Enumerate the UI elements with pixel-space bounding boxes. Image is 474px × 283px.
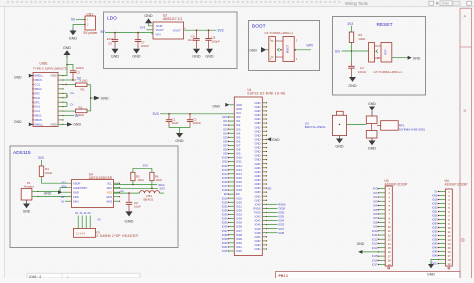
svg-text:SIYEMA-KXB-Z001: SIYEMA-KXB-Z001 xyxy=(399,127,426,131)
svg-text:IO12: IO12 xyxy=(222,164,228,168)
resistor R4 10k xyxy=(41,160,43,166)
svg-text:IO4: IO4 xyxy=(373,204,378,208)
top toolbar xyxy=(0,0,474,7)
ground (C8) xyxy=(206,49,213,54)
svg-text:VDD: VDD xyxy=(107,190,113,194)
svg-text:ALERT/RDY: ALERT/RDY xyxy=(73,186,88,190)
svg-text:IO38: IO38 xyxy=(255,231,261,235)
svg-text:IO34: IO34 xyxy=(236,217,242,221)
svg-text:10kΩ: 10kΩ xyxy=(155,178,161,182)
svg-text:DP2: DP2 xyxy=(34,91,40,95)
svg-text:IO5: IO5 xyxy=(373,208,378,212)
ground (U2 GND pin) xyxy=(145,18,152,23)
svg-text:ESP32-S2-MINI-1U-N8: ESP32-S2-MINI-1U-N8 xyxy=(248,92,286,96)
ground (H4) xyxy=(431,260,439,265)
svg-text:IO13: IO13 xyxy=(372,242,378,246)
svg-text:11: 11 xyxy=(388,229,391,233)
svg-text:IO26: IO26 xyxy=(432,214,438,218)
svg-text:3V3: 3V3 xyxy=(140,26,146,30)
svg-text:IO18: IO18 xyxy=(432,198,438,202)
ground (C6) xyxy=(193,49,200,54)
svg-text:3V3: 3V3 xyxy=(236,111,241,115)
svg-text:IO35: IO35 xyxy=(222,221,228,225)
ground (ESP32 right GND) xyxy=(267,137,271,141)
connector CN1 5V power xyxy=(85,16,96,30)
ground (above USB) xyxy=(66,55,68,58)
filter RF1 SIYEMA-KXB-Z001 xyxy=(366,116,377,124)
svg-text:ADS1115IDGSR: ADS1115IDGSR xyxy=(89,176,113,180)
svg-text:CC1: CC1 xyxy=(34,109,40,113)
wire (antenna feed) xyxy=(347,124,364,126)
svg-text:A3: A3 xyxy=(97,217,101,221)
svg-text:IO36: IO36 xyxy=(222,225,228,229)
svg-text:10uF: 10uF xyxy=(172,121,179,125)
connector P2 header xyxy=(74,228,96,237)
svg-text:IO40: IO40 xyxy=(255,223,261,227)
svg-text:IO1: IO1 xyxy=(373,191,378,195)
svg-text:IO11: IO11 xyxy=(222,160,228,164)
wire (AIN to P2) xyxy=(77,216,79,229)
svg-text:GND: GND xyxy=(255,121,261,125)
svg-text:GND: GND xyxy=(50,122,56,126)
svg-text:GND: GND xyxy=(272,138,280,142)
svg-text:IO16: IO16 xyxy=(236,180,242,184)
svg-text:2.54MM 1*5P HEADER: 2.54MM 1*5P HEADER xyxy=(96,234,138,238)
svg-text:IO8: IO8 xyxy=(223,148,228,152)
svg-text:GND: GND xyxy=(212,104,220,108)
svg-text:GND: GND xyxy=(432,194,438,198)
svg-text:SBU2: SBU2 xyxy=(34,87,42,91)
svg-text:100nF: 100nF xyxy=(358,70,367,74)
svg-text:Wiring Tools: Wiring Tools xyxy=(345,1,368,6)
svg-text:100nF: 100nF xyxy=(193,121,202,125)
svg-text:SDA: SDA xyxy=(107,186,113,190)
ground (CC resistors) xyxy=(94,96,100,100)
svg-text:SDA: SDA xyxy=(61,185,66,188)
svg-text:RESET: RESET xyxy=(377,22,393,28)
svg-text:IO39: IO39 xyxy=(432,242,438,246)
svg-text:IO38: IO38 xyxy=(432,238,438,242)
svg-text:IO10: IO10 xyxy=(372,229,378,233)
svg-text:GND: GND xyxy=(205,55,214,59)
capacitor C8 100nF xyxy=(208,30,210,38)
capacitor C3 100nF xyxy=(67,65,73,71)
svg-text:IO0: IO0 xyxy=(236,115,241,119)
svg-text:IO38: IO38 xyxy=(236,233,242,237)
svg-text:IO45: IO45 xyxy=(255,202,261,206)
svg-text:VOUT: VOUT xyxy=(173,29,182,33)
svg-text:IO12: IO12 xyxy=(372,237,378,241)
svg-text:GND: GND xyxy=(255,150,261,154)
svg-text:IO9: IO9 xyxy=(236,152,241,156)
svg-text:GND: GND xyxy=(255,194,261,198)
svg-text:GND: GND xyxy=(236,103,242,107)
svg-text:IO18: IO18 xyxy=(222,188,228,192)
svg-text:RXD0: RXD0 xyxy=(253,206,261,210)
svg-text:IO6: IO6 xyxy=(223,139,228,143)
ground (C7) xyxy=(133,49,140,54)
svg-text:16: 16 xyxy=(448,250,451,254)
ground (C5) xyxy=(112,49,119,54)
svg-text:IO17: IO17 xyxy=(236,184,242,188)
svg-text:IO13: IO13 xyxy=(236,168,242,172)
svg-text:15: 15 xyxy=(388,246,391,250)
svg-text:GND: GND xyxy=(44,191,52,195)
svg-text:3V3: 3V3 xyxy=(38,156,44,160)
svg-text:3V3: 3V3 xyxy=(153,112,159,116)
svg-text:CC2: CC2 xyxy=(34,83,40,87)
svg-text:10kΩ: 10kΩ xyxy=(137,178,143,182)
svg-text:GND: GND xyxy=(255,158,261,162)
svg-text:GND: GND xyxy=(255,174,261,178)
svg-text:IO8: IO8 xyxy=(236,148,241,152)
wire (ESP32 left pin stubs and net labels) xyxy=(229,116,235,118)
svg-text:IO15: IO15 xyxy=(236,176,242,180)
svg-text:15: 15 xyxy=(448,246,451,250)
svg-text:GND: GND xyxy=(255,162,261,166)
svg-text:IO37: IO37 xyxy=(432,234,438,238)
wire (U4 right stubs) xyxy=(114,182,120,184)
svg-text:IO18: IO18 xyxy=(236,188,242,192)
svg-text:10kΩ: 10kΩ xyxy=(358,37,366,41)
svg-text:IO7: IO7 xyxy=(223,144,228,148)
svg-text:IO37: IO37 xyxy=(278,227,284,231)
svg-text:GND: GND xyxy=(427,272,435,276)
svg-text:IO4: IO4 xyxy=(236,131,241,135)
svg-text:GND: GND xyxy=(249,48,257,52)
svg-text:IO1: IO1 xyxy=(223,119,228,123)
svg-text:10: 10 xyxy=(388,225,391,229)
svg-text:IO42: IO42 xyxy=(255,215,261,219)
svg-text:IO5: IO5 xyxy=(236,135,241,139)
svg-text:12: 12 xyxy=(448,234,451,238)
svg-text:IO14: IO14 xyxy=(222,172,228,176)
svg-text:IO33: IO33 xyxy=(432,218,438,222)
svg-text:IO39: IO39 xyxy=(236,237,242,241)
adc U4 ADS1115IDGSR xyxy=(72,180,114,208)
svg-text:IO37: IO37 xyxy=(222,229,228,233)
svg-text:17: 17 xyxy=(448,254,451,258)
wire xyxy=(169,127,190,129)
capacitor C6 10uF xyxy=(196,30,198,38)
svg-text:GND: GND xyxy=(255,146,261,150)
svg-text:IO14: IO14 xyxy=(372,246,378,250)
svg-text:IO6: IO6 xyxy=(373,212,378,216)
svg-text:3V3: 3V3 xyxy=(159,186,165,190)
svg-text:TYPE-C 16PIN 2MD(073): TYPE-C 16PIN 2MD(073) xyxy=(33,67,67,71)
svg-text:GND: GND xyxy=(255,166,261,170)
svg-text:AIN3: AIN3 xyxy=(106,195,112,199)
sheet frame right border xyxy=(459,8,461,278)
svg-text:IO38: IO38 xyxy=(222,233,228,237)
svg-text:IO19: IO19 xyxy=(222,196,228,200)
svg-text:GND: GND xyxy=(255,137,261,141)
ground (USB bottom right) xyxy=(63,123,67,125)
svg-text:5V: 5V xyxy=(434,190,437,194)
svg-text:C5: C5 xyxy=(108,42,112,46)
svg-text:A100UP-ZD19P: A100UP-ZD19P xyxy=(445,182,468,186)
svg-text:IO41: IO41 xyxy=(236,245,242,249)
svg-text:IO3: IO3 xyxy=(236,127,241,131)
svg-text:3V3: 3V3 xyxy=(347,22,353,26)
svg-text:A2: A2 xyxy=(120,189,124,193)
svg-text:BOOT: BOOT xyxy=(286,45,290,54)
svg-text:IO20: IO20 xyxy=(222,200,228,204)
capacitor C5 10uF xyxy=(114,33,116,40)
svg-text:TXD0: TXD0 xyxy=(278,206,285,210)
svg-text:IO16: IO16 xyxy=(372,258,378,262)
svg-text:IO21: IO21 xyxy=(236,204,242,208)
svg-text:GND: GND xyxy=(175,139,184,143)
svg-text:5V: 5V xyxy=(71,18,76,22)
svg-text:GND: GND xyxy=(192,55,201,59)
svg-text:10uF: 10uF xyxy=(134,205,141,209)
svg-text:1 2 3 4 5: 1 2 3 4 5 xyxy=(76,233,86,236)
svg-text:GND: GND xyxy=(255,198,261,202)
svg-text:10uF: 10uF xyxy=(188,38,195,42)
svg-text:PRJ 1: PRJ 1 xyxy=(279,274,289,278)
wire (reset to GND) xyxy=(392,57,408,59)
svg-text:GND: GND xyxy=(255,129,261,133)
svg-text:16: 16 xyxy=(388,250,391,254)
svg-text:IO12: IO12 xyxy=(236,164,242,168)
svg-text:ADDR: ADDR xyxy=(73,181,80,185)
svg-text:SCL: SCL xyxy=(62,182,67,185)
svg-text:GND: GND xyxy=(368,147,377,151)
tooltip (bottom left) xyxy=(27,273,140,278)
svg-text:3V3: 3V3 xyxy=(143,164,149,168)
svg-text:5V power: 5V power xyxy=(84,31,99,35)
svg-text:IO10: IO10 xyxy=(222,156,228,160)
svg-text:CN1: CN1 xyxy=(87,12,94,16)
svg-text:17: 17 xyxy=(388,254,391,258)
svg-text:GND: GND xyxy=(125,219,134,224)
svg-text:RST: RST xyxy=(383,49,387,55)
wire xyxy=(76,19,85,21)
svg-text:LDO: LDO xyxy=(107,16,117,22)
svg-text:USB1: USB1 xyxy=(40,62,49,66)
svg-text:10uF: 10uF xyxy=(107,37,114,41)
svg-text:GND: GND xyxy=(357,242,365,246)
svg-text:DP1: DP1 xyxy=(34,100,40,104)
wire (USB pin stubs) xyxy=(58,75,63,77)
svg-text:IO17: IO17 xyxy=(372,263,378,267)
svg-text:IO33: IO33 xyxy=(278,223,284,227)
ground (U3) xyxy=(339,136,341,139)
svg-text:GND: GND xyxy=(255,101,261,105)
wire xyxy=(38,188,72,192)
svg-text:IO34: IO34 xyxy=(432,222,438,226)
svg-text:EN: EN xyxy=(268,186,272,190)
svg-text:GND: GND xyxy=(144,14,153,18)
svg-text:3V3: 3V3 xyxy=(373,187,378,191)
svg-text:GND: GND xyxy=(50,74,56,78)
svg-text:IO36: IO36 xyxy=(432,230,438,234)
resistor R2 5.1k xyxy=(63,84,76,86)
sheet title block xyxy=(276,272,461,279)
svg-text:AIN2: AIN2 xyxy=(106,199,112,203)
svg-text:10: 10 xyxy=(448,226,451,230)
svg-text:5.1kΩ: 5.1kΩ xyxy=(80,79,89,83)
svg-text:EN: EN xyxy=(335,49,340,53)
svg-text:R5: R5 xyxy=(136,174,140,178)
svg-text:GND: GND xyxy=(236,107,242,111)
svg-text:IO45: IO45 xyxy=(236,249,242,253)
connector USB1 TYPE-C xyxy=(33,73,58,127)
svg-text:IO15: IO15 xyxy=(222,176,228,180)
svg-text:DN1: DN1 xyxy=(34,105,40,109)
svg-text:IO35: IO35 xyxy=(432,226,438,230)
svg-text:IO2: IO2 xyxy=(223,123,228,127)
svg-text:GND: GND xyxy=(255,239,261,243)
svg-text:AIN1: AIN1 xyxy=(73,199,79,203)
wire (5V VBUS) xyxy=(63,79,76,81)
svg-text:IO35: IO35 xyxy=(236,221,242,225)
wire xyxy=(73,25,85,30)
ground (reset switch) xyxy=(408,56,412,60)
switch SW RESET xyxy=(369,43,375,63)
svg-text:19: 19 xyxy=(388,263,391,267)
svg-text:10kΩ: 10kΩ xyxy=(45,171,53,175)
svg-text:GND: GND xyxy=(255,113,261,117)
svg-text:IO8: IO8 xyxy=(373,220,378,224)
wire (GND to C3) xyxy=(63,65,67,76)
svg-text:IO9: IO9 xyxy=(223,152,228,156)
svg-text:100nF: 100nF xyxy=(212,39,221,43)
section frame RESET xyxy=(333,17,426,96)
svg-text:18: 18 xyxy=(388,259,391,263)
ground (P1) xyxy=(26,200,28,204)
section frame LDO xyxy=(104,12,238,69)
svg-text:IO39: IO39 xyxy=(255,227,261,231)
svg-text:GND: GND xyxy=(101,97,109,101)
svg-text:GND: GND xyxy=(255,247,261,251)
capacitor C2 100nF xyxy=(189,114,191,120)
svg-text:IO46: IO46 xyxy=(432,254,438,258)
svg-text:IO20: IO20 xyxy=(236,200,242,204)
svg-text:IO14: IO14 xyxy=(236,172,242,176)
svg-text:IO35: IO35 xyxy=(278,215,284,219)
svg-text:GND: GND xyxy=(255,235,261,239)
svg-text:IO19: IO19 xyxy=(236,196,242,200)
svg-text:IO1: IO1 xyxy=(236,119,241,123)
capacitor C1 10uF xyxy=(168,114,170,120)
svg-text:B: B xyxy=(464,108,467,113)
svg-text:VIN: VIN xyxy=(156,32,161,36)
ground (C9) xyxy=(125,211,132,216)
svg-text:IO26: IO26 xyxy=(222,208,228,212)
ground (CN1) xyxy=(72,29,74,31)
ground (C4) xyxy=(349,77,356,82)
svg-text:SCL: SCL xyxy=(107,181,113,185)
svg-text:100nF: 100nF xyxy=(141,44,150,48)
svg-text:GND: GND xyxy=(69,36,78,40)
svg-text:12: 12 xyxy=(388,233,391,237)
svg-text:BEAD1: BEAD1 xyxy=(144,198,154,202)
svg-text:GP0: GP0 xyxy=(306,44,313,48)
svg-text:3V3: 3V3 xyxy=(218,28,224,32)
svg-text:IO7: IO7 xyxy=(236,144,241,148)
svg-text:IO17: IO17 xyxy=(222,184,228,188)
svg-text:GND: GND xyxy=(255,186,261,190)
svg-text:IO36: IO36 xyxy=(278,211,284,215)
svg-text:A: A xyxy=(464,14,467,19)
svg-text:IO41: IO41 xyxy=(222,245,228,249)
svg-text:IO33: IO33 xyxy=(222,213,228,217)
svg-text:GND: GND xyxy=(413,56,421,60)
svg-text:GND: GND xyxy=(255,105,261,109)
svg-text:Draw: Draw xyxy=(442,2,450,6)
svg-text:14: 14 xyxy=(448,242,451,246)
svg-text:GND: GND xyxy=(132,55,141,59)
svg-text:GND: GND xyxy=(255,178,261,182)
svg-text:A0: A0 xyxy=(61,195,65,199)
svg-text:IO40: IO40 xyxy=(236,241,242,245)
svg-text:GND: GND xyxy=(255,142,261,146)
svg-text:IO6: IO6 xyxy=(236,139,241,143)
wire (pullup tops) xyxy=(132,168,134,172)
svg-text:R6: R6 xyxy=(155,174,159,178)
svg-text:GND: GND xyxy=(255,170,261,174)
svg-text:GND: GND xyxy=(255,243,261,247)
svg-text:TXD0: TXD0 xyxy=(254,211,261,215)
capacitor C7 100nF xyxy=(137,33,139,40)
wire (CC pulldown to GND) xyxy=(90,85,92,111)
svg-text:GP0: GP0 xyxy=(222,115,228,119)
svg-text:IO41: IO41 xyxy=(255,219,261,223)
svg-text:GND: GND xyxy=(111,55,120,59)
svg-text:EN: EN xyxy=(236,192,240,196)
svg-text:DN2: DN2 xyxy=(34,96,40,100)
svg-text:IO10: IO10 xyxy=(236,156,242,160)
svg-text:GND: GND xyxy=(14,120,22,124)
svg-text:18: 18 xyxy=(448,258,451,262)
svg-text:SBU1: SBU1 xyxy=(34,114,42,118)
svg-text:IO21: IO21 xyxy=(222,204,228,208)
svg-text:GND: GND xyxy=(73,123,81,127)
svg-text:GT-TC089A-H050-L1: GT-TC089A-H050-L1 xyxy=(265,31,294,35)
svg-text:IO2: IO2 xyxy=(373,195,378,199)
ground (C1 C2) xyxy=(176,133,183,138)
wire xyxy=(147,29,154,31)
resistor R6 pullup xyxy=(114,187,159,189)
svg-text:IO37: IO37 xyxy=(236,229,242,233)
wire xyxy=(160,113,234,115)
svg-text:IO7: IO7 xyxy=(373,216,378,220)
svg-text:GND: GND xyxy=(348,84,357,88)
svg-text:13: 13 xyxy=(388,238,391,242)
svg-text:IO34: IO34 xyxy=(278,219,284,223)
resistor R3 10k xyxy=(351,26,353,32)
svg-text:GND: GND xyxy=(63,46,72,50)
svg-text:AMS1117-3.3: AMS1117-3.3 xyxy=(163,17,182,21)
svg-text:IO33: IO33 xyxy=(236,213,242,217)
svg-text:IO16: IO16 xyxy=(222,180,228,184)
svg-text:R2: R2 xyxy=(81,87,85,91)
svg-text:IO13: IO13 xyxy=(222,168,228,172)
svg-text:11: 11 xyxy=(448,230,451,234)
wire (3V3 output rail) xyxy=(184,29,217,31)
svg-text:GND: GND xyxy=(23,210,31,214)
svg-text:IO15: IO15 xyxy=(372,254,378,258)
svg-text:IO45: IO45 xyxy=(222,249,228,253)
ground (RF1 bottom) xyxy=(371,138,373,141)
svg-text:14: 14 xyxy=(388,242,391,246)
svg-text:IO38: IO38 xyxy=(278,231,284,235)
svg-text:IO20: IO20 xyxy=(432,206,438,210)
svg-text:C3: C3 xyxy=(76,70,80,74)
svg-text:IO34: IO34 xyxy=(222,217,228,221)
